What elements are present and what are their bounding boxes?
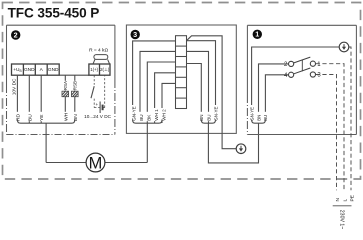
- svg-text:RSB: RSB: [73, 81, 78, 90]
- wire label WH 1: [153, 108, 159, 121]
- svg-text:+UB: +UB: [13, 67, 21, 73]
- svg-text:BN: BN: [73, 114, 79, 121]
- wire label WH: [63, 112, 70, 121]
- wire label GN-YE: [213, 105, 219, 121]
- svg-text:RSA: RSA: [63, 81, 68, 90]
- wire WH1: [155, 73, 176, 123]
- motor feed line: [46, 162, 86, 164]
- svg-text:M: M: [89, 154, 103, 172]
- svg-text:WH: WH: [63, 112, 69, 121]
- svg-text:PE: PE: [349, 194, 355, 201]
- svg-text:GN-YE: GN-YE: [250, 107, 255, 121]
- box 3 (fan) border: [126, 25, 236, 133]
- cable bracket box3 right: [201, 119, 215, 123]
- enclosure dashed border: [3, 3, 361, 180]
- dashed setpoint circuit: [94, 75, 105, 107]
- switch link: [301, 60, 303, 71]
- wire BU box1: [265, 75, 288, 120]
- wire WH: [64, 97, 66, 120]
- switch contact 4: [289, 72, 294, 77]
- wire WH2: [162, 83, 176, 123]
- wire GN-YE left: [133, 41, 176, 120]
- svg-text:RD: RD: [15, 113, 21, 121]
- label circle 1: [253, 30, 262, 39]
- terminal block row (1(+) 2(gnd)): [89, 64, 110, 75]
- wire BN: [74, 97, 76, 120]
- svg-text:L: L: [342, 199, 348, 202]
- wire label WH 2: [161, 108, 167, 121]
- svg-text:BU: BU: [206, 115, 211, 121]
- wire label BU: [263, 112, 268, 121]
- switch contact 3: [310, 72, 315, 77]
- wire YE: [40, 75, 42, 123]
- wire GN-YE right: [187, 41, 216, 120]
- wire label BN: [199, 112, 205, 121]
- svg-text:3: 3: [133, 30, 137, 39]
- switch blade 2-1: [294, 57, 311, 63]
- svg-text:4: 4: [284, 73, 288, 79]
- label circle 3: [131, 30, 140, 39]
- svg-text:GN-YE: GN-YE: [131, 106, 136, 121]
- wire label GN-YE: [249, 105, 254, 121]
- earth wire from strip top: [187, 36, 237, 149]
- switch contact 1: [310, 61, 315, 66]
- svg-text:BN: BN: [256, 115, 261, 121]
- earth symbol (under box3): [236, 144, 246, 154]
- wire BU right: [187, 51, 209, 123]
- wire BK: [147, 62, 175, 123]
- resistor RSA: [64, 75, 66, 91]
- svg-text:2: 2: [284, 62, 288, 68]
- svg-text:2(⊥): 2(⊥): [100, 67, 110, 72]
- wire label BU: [138, 112, 144, 121]
- svg-text:+: +: [96, 102, 99, 107]
- wire label BN: [256, 112, 261, 121]
- wire to motor (right): [146, 123, 148, 162]
- box 2 (controller) border: [7, 25, 115, 134]
- connecting wire box3 to box1: [208, 123, 258, 163]
- cable bracket box1: [252, 119, 266, 123]
- svg-text:1: 1: [317, 62, 321, 68]
- label circle 2: [11, 30, 20, 39]
- svg-text:230V 1~: 230V 1~: [339, 210, 345, 229]
- wire to motor (left): [45, 123, 47, 162]
- wire label BN: [72, 112, 79, 121]
- svg-text:TFC 355-450 P: TFC 355-450 P: [8, 6, 100, 21]
- wire GN-YE box1: [252, 47, 340, 119]
- svg-text:10V DC: 10V DC: [11, 78, 17, 95]
- svg-text:GND: GND: [24, 67, 35, 73]
- cable bracket box2: [17, 119, 74, 123]
- wire label YE: [38, 112, 45, 121]
- svg-text:BU: BU: [139, 114, 144, 120]
- svg-text:BU: BU: [27, 114, 33, 121]
- svg-text:R = 4 kΩ: R = 4 kΩ: [89, 48, 108, 54]
- motor M: [86, 153, 105, 172]
- cable bracket box3 left: [133, 119, 162, 123]
- wire BN right: [187, 64, 202, 120]
- battery: [99, 102, 101, 114]
- svg-text:WH 2: WH 2: [161, 109, 166, 121]
- label RSB: [72, 81, 77, 91]
- wire label BK: [146, 112, 152, 121]
- svg-text:1: 1: [255, 30, 259, 39]
- switch contact 2: [289, 61, 294, 66]
- dashed mains wires: [316, 47, 351, 190]
- terminal block row (+UB GND A GND): [12, 64, 60, 75]
- wire BN box1: [259, 64, 289, 120]
- switch blade 4-3: [294, 68, 311, 74]
- box 1 (switch) border: [247, 25, 356, 134]
- switch blade (external): [91, 86, 94, 98]
- label RSA: [63, 81, 68, 91]
- svg-text:GND: GND: [48, 67, 59, 73]
- terminal labels: [13, 67, 59, 73]
- svg-text:GN-YE: GN-YE: [213, 107, 218, 121]
- connector strip: [176, 36, 187, 109]
- svg-text:10...24 V DC: 10...24 V DC: [84, 114, 111, 119]
- svg-text:1(+): 1(+): [90, 67, 98, 72]
- svg-text:YE: YE: [39, 114, 45, 121]
- wire label GN-YE: [131, 105, 137, 121]
- wire RD: [16, 75, 18, 119]
- svg-text:A: A: [40, 67, 44, 73]
- potentiometer R: [93, 55, 110, 64]
- wire BU: [28, 75, 30, 123]
- earth symbol box1: [339, 42, 349, 52]
- svg-text:BK: BK: [146, 114, 151, 121]
- wire label BU: [27, 112, 34, 121]
- svg-text:WH 1: WH 1: [154, 109, 159, 121]
- terminal shelf: [59, 74, 89, 76]
- svg-text:3: 3: [317, 73, 321, 79]
- svg-text:N: N: [335, 198, 341, 202]
- resistor RSB: [74, 75, 76, 91]
- mains underline: [333, 205, 352, 207]
- svg-text:2: 2: [14, 30, 18, 39]
- wire label BU: [206, 112, 212, 121]
- wire BU left: [140, 51, 176, 119]
- wire label RD: [15, 112, 22, 121]
